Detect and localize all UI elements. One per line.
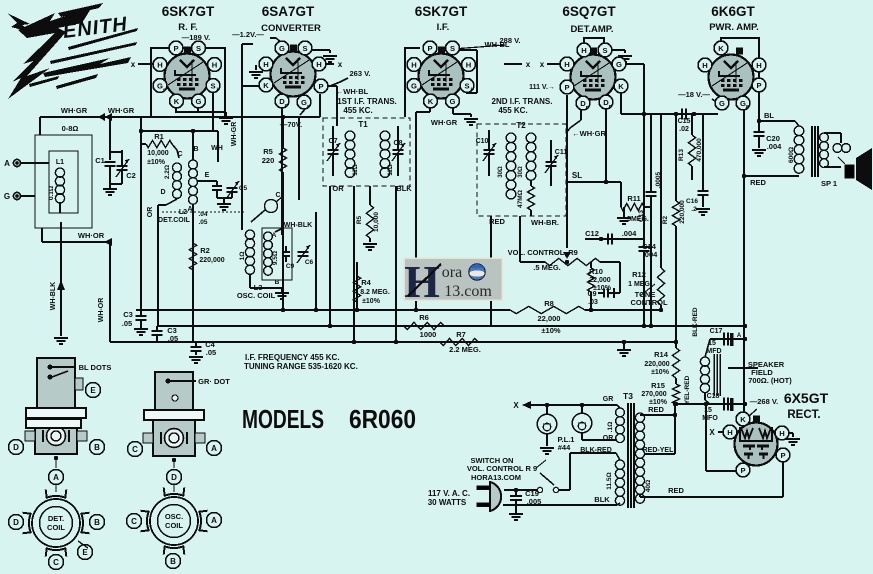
svg-text:C2: C2 — [126, 171, 136, 180]
svg-text:RED: RED — [750, 178, 766, 187]
svg-text:WH-OR: WH-OR — [98, 298, 105, 323]
svg-text:I.F.: I.F. — [437, 22, 450, 33]
svg-text:455 KC.: 455 KC. — [343, 106, 372, 115]
svg-text:H: H — [263, 60, 268, 69]
svg-text:.5 MEG.: .5 MEG. — [533, 263, 561, 272]
svg-text:WH-BR.: WH-BR. — [531, 218, 559, 227]
svg-text:11Ω: 11Ω — [353, 164, 359, 175]
svg-text:10,000: 10,000 — [373, 212, 380, 232]
svg-text:1 MEG.: 1 MEG. — [628, 281, 652, 288]
svg-text:G: G — [719, 99, 725, 108]
svg-text:8.2 MEG.: 8.2 MEG. — [360, 289, 390, 296]
svg-text:D: D — [160, 189, 165, 196]
svg-text:0-8Ω: 0-8Ω — [62, 124, 79, 133]
svg-text:±10%: ±10% — [541, 326, 560, 335]
svg-text:6X5GT: 6X5GT — [784, 390, 829, 406]
svg-text:C3: C3 — [123, 310, 133, 319]
svg-text:C7: C7 — [329, 138, 338, 145]
svg-text:H: H — [727, 428, 732, 437]
svg-text:R10: R10 — [589, 267, 603, 276]
svg-text:WH·GR: WH·GR — [431, 118, 458, 127]
svg-text:C18: C18 — [707, 393, 720, 400]
svg-text:MFD: MFD — [706, 348, 721, 355]
svg-text:RED: RED — [489, 217, 505, 226]
svg-text:H: H — [581, 46, 586, 55]
svg-text:K: K — [718, 44, 724, 53]
svg-text:SL: SL — [572, 171, 582, 180]
svg-text:S: S — [196, 44, 201, 53]
svg-text:TUNING RANGE 535-1620 KC.: TUNING RANGE 535-1620 KC. — [244, 362, 358, 371]
svg-text:—18 V.—: —18 V.— — [678, 90, 710, 99]
svg-text:C10: C10 — [476, 138, 489, 145]
svg-text:C6: C6 — [305, 259, 314, 266]
svg-text:R8: R8 — [544, 299, 554, 308]
svg-text:RED: RED — [648, 405, 664, 414]
svg-text:s: s — [163, 87, 166, 93]
svg-text:R. F.: R. F. — [178, 22, 198, 33]
svg-text:S: S — [302, 44, 307, 53]
svg-text:1Ω: 1Ω — [239, 252, 246, 261]
svg-text:.1Ω: .1Ω — [607, 422, 614, 433]
svg-text:.02: .02 — [679, 126, 689, 133]
svg-text:S: S — [210, 81, 215, 90]
svg-text:.03: .03 — [588, 299, 598, 306]
svg-text:A: A — [211, 516, 217, 525]
svg-text:.05: .05 — [168, 334, 178, 343]
svg-text:.05: .05 — [122, 319, 132, 328]
svg-text:COIL: COIL — [165, 521, 183, 530]
svg-text:E: E — [90, 386, 96, 395]
svg-text:D: D — [13, 518, 19, 527]
svg-text:.004: .004 — [767, 142, 782, 151]
svg-text:D: D — [13, 443, 19, 452]
svg-text:C17: C17 — [710, 328, 723, 335]
svg-text:RED: RED — [668, 486, 684, 495]
svg-text:R1: R1 — [154, 132, 164, 141]
svg-text:.004: .004 — [622, 229, 637, 238]
svg-text:←WH·BL: ←WH·BL — [336, 87, 369, 96]
svg-text:MODELS: MODELS — [242, 404, 324, 434]
svg-text:#44: #44 — [558, 443, 571, 452]
svg-text:L1: L1 — [56, 159, 64, 166]
svg-text:.2: .2 — [691, 206, 697, 213]
svg-text:x: x — [540, 60, 545, 69]
svg-text:±10%: ±10% — [362, 298, 381, 305]
svg-text:G: G — [196, 97, 202, 106]
svg-text:X: X — [513, 401, 519, 410]
svg-text:GR· DOT: GR· DOT — [198, 377, 230, 386]
svg-text:P: P — [427, 44, 432, 53]
svg-text:G: G — [450, 97, 456, 106]
svg-text:E: E — [82, 548, 88, 557]
svg-text:R5: R5 — [263, 147, 273, 156]
svg-text:1ST I.F. TRANS.: 1ST I.F. TRANS. — [337, 97, 397, 106]
svg-text:C1: C1 — [95, 156, 105, 165]
svg-text:C9: C9 — [588, 291, 597, 298]
svg-text:H: H — [212, 60, 217, 69]
svg-text:BLK: BLK — [594, 495, 610, 504]
svg-text:B: B — [170, 557, 176, 566]
svg-text:B: B — [94, 518, 100, 527]
svg-text:30Ω: 30Ω — [518, 166, 524, 178]
svg-text:R4: R4 — [361, 278, 371, 287]
svg-text:A: A — [4, 159, 10, 168]
svg-text:13.com: 13.com — [444, 283, 492, 300]
svg-text:OSC. COIL: OSC. COIL — [237, 291, 276, 300]
svg-text:A: A — [737, 333, 742, 339]
svg-text:K: K — [263, 81, 269, 90]
svg-text:C: C — [177, 151, 182, 158]
svg-text:T2: T2 — [516, 121, 526, 130]
svg-text:RED-YEL: RED-YEL — [643, 447, 674, 454]
svg-text:B: B — [275, 279, 280, 286]
svg-text:WH-BLK: WH-BLK — [50, 282, 57, 310]
svg-text:OR: OR — [603, 435, 614, 442]
svg-text:P: P — [318, 82, 323, 91]
svg-text:A: A — [211, 444, 217, 453]
svg-text:H: H — [702, 61, 707, 70]
svg-text:R15: R15 — [651, 381, 665, 390]
svg-text:2ND I.F. TRANS.: 2ND I.F. TRANS. — [492, 97, 553, 106]
svg-text:←WH·GR: ←WH·GR — [572, 129, 606, 138]
svg-text:BL: BL — [764, 111, 774, 120]
svg-text:—1.2V.—: —1.2V.— — [232, 30, 264, 39]
svg-text:x: x — [526, 60, 531, 69]
svg-text:11Ω: 11Ω — [388, 164, 394, 175]
svg-text:0.1Ω: 0.1Ω — [48, 186, 55, 200]
svg-text:E: E — [205, 172, 210, 179]
svg-text:C15: C15 — [678, 118, 691, 125]
svg-text:WH·OR: WH·OR — [78, 231, 105, 240]
svg-text:ora: ora — [442, 264, 462, 281]
svg-text:SP 1: SP 1 — [821, 179, 837, 188]
svg-text:B: B — [94, 443, 100, 452]
svg-text:P: P — [740, 466, 745, 475]
svg-text:P: P — [780, 451, 785, 460]
svg-text:x: x — [338, 60, 343, 69]
svg-text:D: D — [171, 473, 177, 482]
svg-text:117 V. A. C.: 117 V. A. C. — [428, 489, 470, 498]
svg-text:R2: R2 — [200, 246, 210, 255]
svg-text:C5: C5 — [239, 185, 248, 192]
svg-text:47MΩ: 47MΩ — [517, 190, 524, 208]
svg-text:220,000: 220,000 — [199, 257, 224, 264]
svg-text:T3: T3 — [623, 391, 633, 401]
svg-text:VOL. CONTROL R 9: VOL. CONTROL R 9 — [467, 464, 537, 473]
svg-text:.005: .005 — [527, 497, 542, 506]
svg-text:±10%: ±10% — [147, 159, 166, 166]
svg-text:VOL. CONTROL: VOL. CONTROL — [508, 248, 565, 257]
svg-text:R14: R14 — [654, 350, 669, 359]
svg-text:BLK: BLK — [396, 184, 412, 193]
svg-text:OR: OR — [147, 207, 154, 218]
svg-text:H: H — [316, 60, 321, 69]
svg-text:OR: OR — [332, 184, 344, 193]
svg-text:220,000: 220,000 — [644, 361, 669, 368]
svg-text:S: S — [602, 46, 607, 55]
svg-text:700Ω. (HOT): 700Ω. (HOT) — [748, 376, 792, 385]
svg-text:30 WATTS: 30 WATTS — [428, 498, 467, 507]
svg-text:C11: C11 — [555, 149, 568, 156]
svg-text:C: C — [132, 445, 138, 454]
svg-text:600Ω: 600Ω — [788, 147, 795, 163]
svg-text:11.5Ω: 11.5Ω — [606, 472, 613, 490]
svg-text:CONTROL: CONTROL — [630, 298, 667, 307]
svg-text:A: A — [53, 473, 59, 482]
svg-text:C8: C8 — [394, 140, 403, 147]
svg-text:263 V.: 263 V. — [350, 69, 371, 78]
svg-text:G: G — [4, 192, 10, 201]
svg-text:HORA13.COM: HORA13.COM — [471, 473, 521, 482]
svg-text:455 KC.: 455 KC. — [498, 106, 527, 115]
svg-text:WH·GR: WH·GR — [61, 106, 88, 115]
svg-text:R7: R7 — [456, 330, 466, 339]
svg-text:6K6GT: 6K6GT — [711, 4, 755, 19]
svg-text:DET.: DET. — [48, 514, 64, 523]
svg-text:6SK7GT: 6SK7GT — [415, 4, 468, 19]
svg-text:.04: .04 — [198, 211, 207, 218]
svg-text:R11: R11 — [627, 194, 640, 203]
svg-text:111 V.→: 111 V.→ — [529, 84, 555, 91]
svg-text:S: S — [464, 81, 469, 90]
svg-text:WH-BL: WH-BL — [485, 40, 510, 49]
svg-text:H: H — [779, 429, 784, 438]
svg-text:C: C — [131, 517, 137, 526]
svg-text:2.2 MEG.: 2.2 MEG. — [449, 345, 481, 354]
svg-text:A: A — [272, 232, 277, 239]
svg-text:6SQ7GT: 6SQ7GT — [562, 4, 616, 19]
svg-text:.5MEG.: .5MEG. — [625, 216, 649, 223]
svg-text:T1: T1 — [358, 120, 368, 129]
svg-text:R6: R6 — [419, 313, 429, 322]
svg-text:40Ω: 40Ω — [645, 480, 652, 492]
svg-text:P: P — [564, 83, 569, 92]
svg-text:B: B — [193, 146, 198, 153]
svg-text:BLK-RED: BLK-RED — [692, 307, 699, 337]
svg-text:K: K — [428, 97, 434, 106]
svg-text:C: C — [53, 558, 59, 567]
svg-text:K: K — [174, 97, 180, 106]
svg-text:CONVERTER: CONVERTER — [261, 23, 321, 34]
svg-text:—189 V.: —189 V. — [182, 33, 211, 42]
svg-text:s: s — [417, 87, 420, 93]
svg-text:H: H — [564, 60, 569, 69]
svg-text:WH-GR: WH-GR — [231, 122, 238, 147]
svg-text:—268 V.: —268 V. — [750, 397, 779, 406]
svg-text:.05: .05 — [198, 219, 207, 226]
svg-text:I.F. FREQUENCY 455 KC.: I.F. FREQUENCY 455 KC. — [245, 353, 340, 362]
svg-text:R12: R12 — [632, 270, 646, 279]
svg-text:P: P — [756, 81, 761, 90]
svg-text:H: H — [157, 60, 162, 69]
svg-text:s: s — [307, 104, 310, 110]
svg-text:R9: R9 — [568, 248, 578, 257]
svg-text:YEL-RED: YEL-RED — [684, 375, 691, 404]
svg-text:COIL: COIL — [47, 523, 65, 532]
svg-text:X: X — [709, 428, 715, 437]
svg-text:x: x — [131, 60, 136, 69]
svg-text:R2: R2 — [662, 215, 669, 224]
svg-text:6SA7GT: 6SA7GT — [262, 4, 315, 19]
svg-text:C12: C12 — [585, 229, 599, 238]
svg-text:10,000: 10,000 — [147, 150, 169, 157]
svg-text:PWR. AMP.: PWR. AMP. — [709, 22, 759, 33]
svg-text:8: 8 — [746, 105, 749, 111]
svg-text:9.5Ω: 9.5Ω — [272, 251, 279, 265]
svg-text:470,000: 470,000 — [696, 138, 703, 162]
svg-text:30Ω: 30Ω — [498, 166, 504, 178]
svg-text:C16: C16 — [686, 198, 698, 205]
svg-text:22,000: 22,000 — [538, 314, 561, 323]
svg-text:R5: R5 — [356, 215, 363, 224]
svg-text:WH-BLK: WH-BLK — [284, 222, 312, 229]
svg-text:220: 220 — [262, 156, 275, 165]
svg-text:C9: C9 — [286, 263, 295, 270]
svg-text:OSC.: OSC. — [165, 512, 183, 521]
svg-text:G: G — [279, 44, 285, 53]
svg-text:22,000: 22,000 — [589, 277, 611, 284]
svg-text:P: P — [173, 44, 178, 53]
svg-text:270,000: 270,000 — [641, 391, 666, 398]
svg-text:RECT.: RECT. — [787, 409, 820, 421]
svg-text:BL DOTS: BL DOTS — [79, 363, 112, 372]
svg-text:K: K — [618, 82, 624, 91]
svg-text:S: S — [450, 44, 455, 53]
svg-text:R13: R13 — [678, 149, 685, 161]
svg-text:220,000: 220,000 — [679, 200, 686, 224]
svg-text:K: K — [740, 415, 746, 424]
svg-text:2.2Ω: 2.2Ω — [164, 165, 171, 179]
svg-text:WH: WH — [211, 145, 223, 152]
svg-text:GR: GR — [603, 396, 614, 403]
svg-text:H: H — [411, 60, 416, 69]
svg-text:1000: 1000 — [420, 330, 437, 339]
svg-text:H: H — [756, 61, 761, 70]
svg-text:DET.COIL: DET.COIL — [158, 217, 191, 224]
svg-text:6SK7GT: 6SK7GT — [162, 4, 215, 19]
svg-text:6R060: 6R060 — [349, 404, 416, 434]
svg-text:±10%: ±10% — [651, 369, 670, 376]
svg-text:G: G — [616, 60, 622, 69]
svg-text:H: H — [466, 60, 471, 69]
svg-text:DET.AMP.: DET.AMP. — [570, 24, 613, 35]
svg-text:.05: .05 — [206, 348, 216, 357]
svg-text:MFO: MFO — [702, 415, 718, 422]
